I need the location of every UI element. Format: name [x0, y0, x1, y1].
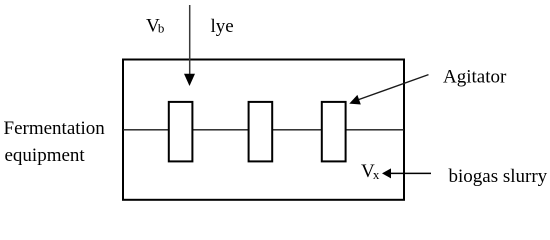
- svg-text:Fermentation: Fermentation: [4, 118, 106, 139]
- agitator shaft wire: [123, 129, 404, 131]
- biogas slurry outlet arrow (Vx): [382, 168, 431, 178]
- agitator paddle 3: [322, 102, 346, 161]
- svg-text:equipment: equipment: [5, 145, 86, 166]
- Agitator pointer arrow: [349, 75, 428, 105]
- svg-text:Vx: Vx: [361, 161, 380, 182]
- svg-text:Agitator: Agitator: [443, 66, 507, 87]
- svg-text:Vb: Vb: [146, 16, 164, 37]
- fermentation tank body rectangle: [123, 60, 404, 200]
- svg-text:biogas slurry: biogas slurry: [449, 166, 548, 187]
- agitator paddle 2: [249, 102, 273, 161]
- lye inlet arrow (Vb): [184, 5, 195, 86]
- svg-text:lye: lye: [211, 16, 234, 37]
- label Fermentation equipment: [4, 118, 106, 166]
- agitator paddle 1: [169, 102, 193, 161]
